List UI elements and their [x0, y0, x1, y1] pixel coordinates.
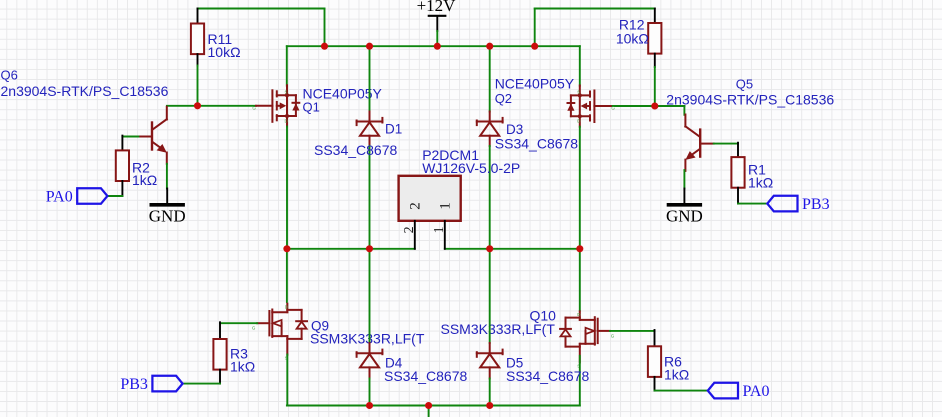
wire R11 bottom to node — [197, 66, 199, 106]
label D1 value — [314, 142, 398, 158]
label D5 refdes — [506, 356, 523, 371]
junction right output / D3-D5 — [486, 245, 493, 252]
svg-text:2n3904S-RTK/PS_C18536: 2n3904S-RTK/PS_C18536 — [1, 83, 169, 99]
wire bus to D1 cathode — [369, 46, 371, 111]
junction +12V bus / D1 — [366, 43, 373, 50]
label D1 refdes — [385, 122, 402, 137]
label Q1 refdes — [303, 99, 320, 114]
label R6 value — [664, 367, 689, 383]
junction node right gate — [651, 102, 658, 109]
svg-text:SSM3K333R,LF(T: SSM3K333R,LF(T — [310, 331, 425, 347]
net flag PB3 (right input) — [767, 196, 829, 213]
resistor R2 top pin — [121, 136, 123, 151]
label R3 value — [230, 359, 255, 375]
diode D4 — [357, 350, 383, 368]
svg-text:G: G — [611, 333, 615, 338]
label Q5 value — [666, 92, 834, 108]
wire left output rail — [287, 248, 415, 250]
wire Q9 source to GND rail — [286, 355, 288, 406]
wire R12-top horizontal — [535, 8, 655, 10]
svg-text:1: 1 — [432, 226, 447, 233]
wire +12V stem — [436, 31, 438, 46]
svg-text:1kΩ: 1kΩ — [230, 359, 255, 375]
label Q6 value — [1, 83, 169, 99]
wire Q5 collector stub — [683, 106, 685, 115]
svg-text:PA0: PA0 — [743, 383, 770, 400]
label R12 refdes — [619, 17, 645, 33]
wire R12-top drop to bus — [534, 9, 536, 47]
svg-text:2: 2 — [408, 202, 424, 210]
wire D5 anode to GND rail — [489, 379, 491, 406]
junction bottom rail / D4 — [366, 402, 373, 409]
diode D5 — [477, 350, 503, 368]
junction +12V bus / R12 loop — [531, 43, 538, 50]
wire Q1 source down to left output — [286, 127, 288, 249]
resistor R3 top pin — [219, 322, 221, 339]
svg-text:PB3: PB3 — [802, 196, 830, 213]
resistor R3 — [213, 339, 226, 370]
resistor R12 — [648, 23, 661, 54]
diode D1 anode pin — [369, 136, 371, 146]
junction bottom rail stub — [425, 402, 432, 409]
wire PB3 flag to R3 — [183, 383, 220, 385]
wire Q10 gate to R6 — [610, 330, 655, 332]
resistor R1 — [731, 157, 744, 188]
svg-text:S: S — [577, 90, 580, 95]
label Q9 refdes — [311, 319, 329, 334]
wire bus to D3 cathode — [489, 46, 491, 111]
junction right output B — [576, 245, 583, 252]
label R3 refdes — [230, 346, 248, 362]
resistor R6 — [648, 346, 661, 377]
mosfet Q9 — [252, 304, 307, 361]
svg-text:GND: GND — [149, 207, 186, 226]
mosfet Q1 — [252, 85, 299, 126]
wire D3 anode to right output — [489, 146, 491, 249]
wire R3 to Q9 gate — [220, 322, 257, 324]
transistor Q6 — [139, 107, 167, 164]
label R2 value — [132, 172, 157, 188]
junction left output A — [283, 245, 290, 252]
svg-text:SS34_C8678: SS34_C8678 — [506, 368, 590, 384]
svg-text:SS34_C8678: SS34_C8678 — [495, 136, 579, 152]
label Q1 value — [303, 85, 383, 101]
resistor R2 — [116, 150, 129, 181]
label R12 value — [616, 31, 649, 47]
diode D3 cathode pin — [489, 112, 491, 122]
ground (left) — [149, 189, 186, 226]
label Q9 value — [310, 331, 425, 347]
net flag PA0 (left input) — [46, 188, 108, 205]
resistor R11 — [191, 24, 204, 55]
junction +12V bus / D3 — [486, 43, 493, 50]
pin name 2 — [408, 202, 424, 210]
svg-text:PA0: PA0 — [46, 189, 73, 206]
wire Q5 base to R1 top — [714, 143, 738, 145]
wire Q5 emitter to GND — [683, 170, 685, 188]
resistor R12 bottom pin — [654, 54, 656, 67]
wire node to Q5 collector — [655, 105, 685, 107]
svg-text:GND: GND — [666, 207, 703, 226]
connector P2 pin 2 — [414, 221, 416, 249]
svg-text:SS34_C8678: SS34_C8678 — [314, 142, 398, 158]
diode D3 — [477, 118, 503, 136]
pin number 2 — [402, 226, 417, 233]
ground (right) — [666, 189, 703, 226]
label Q2 value — [495, 76, 575, 92]
svg-text:NCE40P05Y: NCE40P05Y — [495, 76, 575, 92]
pin name 1 — [438, 202, 454, 210]
svg-text:1kΩ: 1kΩ — [132, 172, 157, 188]
net flag PA0 (right low input) — [708, 383, 770, 400]
label R11 value — [208, 44, 241, 60]
svg-text:G: G — [252, 326, 256, 331]
svg-text:SS34_C8678: SS34_C8678 — [384, 368, 468, 384]
svg-text:Q2: Q2 — [495, 91, 512, 106]
svg-text:SSM3K333R,LF(T: SSM3K333R,LF(T — [441, 321, 556, 337]
resistor R11 bottom pin — [197, 54, 199, 65]
wire right output to Q10 drain — [579, 249, 581, 311]
label D4 refdes — [385, 356, 403, 371]
wire bottom rail stub down — [428, 406, 430, 417]
net flag PB3 (left low input) — [120, 376, 182, 393]
wire R6 to PA0 flag — [655, 390, 708, 392]
svg-text:S: S — [285, 89, 288, 94]
wire R1 to PB3 flag — [738, 203, 767, 205]
wire right output rail — [445, 248, 580, 250]
wire right gate rail — [610, 105, 655, 107]
label Q10 value — [441, 321, 556, 337]
wire +12V bus horizontal — [287, 45, 580, 47]
mosfet Q10 — [560, 311, 615, 368]
wire D1 anode to left output — [369, 146, 371, 249]
label Q6 refdes — [1, 68, 18, 83]
wire Q10 source to GND rail — [579, 356, 581, 406]
wire Q2 source down to right output — [579, 127, 581, 249]
wire R2 top to Q6 base — [122, 136, 138, 138]
svg-text:G: G — [611, 106, 615, 111]
label Q10 refdes — [530, 308, 557, 324]
label R11 refdes — [208, 31, 233, 47]
wire bus to Q1 drain — [286, 46, 288, 85]
wire D4 anode to GND rail — [369, 379, 371, 406]
wire Q6 emitter to GND — [166, 164, 168, 189]
resistor R3 bottom pin — [219, 370, 221, 384]
wire PA0 flag to R2 — [107, 195, 122, 197]
junction +12V bus / +12V flag — [434, 43, 441, 50]
label Q2 refdes — [495, 91, 512, 106]
label R1 value — [748, 174, 773, 190]
resistor R1 top pin — [737, 143, 739, 157]
junction bottom rail / D5 — [486, 402, 493, 409]
wire R12 bottom to node — [654, 67, 656, 106]
label P2 refdes — [422, 147, 479, 163]
label D3 value — [495, 136, 579, 152]
wire left output to D4 cathode — [369, 249, 371, 343]
junction left output / D1-D4 — [366, 245, 373, 252]
connector P2 pin 1 — [444, 221, 446, 249]
svg-text:Q5: Q5 — [736, 77, 753, 92]
svg-text:D1: D1 — [385, 122, 402, 137]
diode D5 cathode pin — [489, 343, 491, 353]
mosfet Q2 — [567, 86, 615, 127]
svg-text:Q1: Q1 — [303, 99, 320, 114]
resistor R11 top pin — [197, 9, 199, 24]
svg-text:G: G — [252, 106, 256, 111]
junction +12V bus / R11 loop — [321, 43, 328, 50]
wire R11-top drop to +12V bus — [324, 9, 326, 47]
svg-text:+12V: +12V — [417, 0, 457, 15]
wire left output to Q9 drain — [286, 249, 288, 302]
label D5 value — [506, 368, 590, 384]
power flag +12V — [417, 0, 457, 31]
resistor R6 bottom pin — [654, 377, 656, 391]
diode D1 cathode pin — [369, 112, 371, 122]
resistor R2 bottom pin — [121, 181, 123, 196]
label P2 value — [422, 160, 520, 176]
connector P2 body — [399, 176, 461, 221]
label Q5 refdes — [736, 77, 753, 92]
resistor R1 bottom pin — [737, 188, 739, 204]
pin number 1 — [432, 226, 447, 233]
label R2 refdes — [132, 159, 150, 175]
label D4 value — [384, 368, 468, 384]
label D3 refdes — [506, 122, 523, 137]
wire left gate rail — [198, 105, 257, 107]
wire bus to Q2 drain — [579, 46, 581, 85]
svg-text:1: 1 — [438, 202, 454, 210]
wire node to Q6 collector — [167, 105, 198, 107]
diode D1 — [357, 118, 383, 136]
diode D4 cathode pin — [369, 343, 371, 353]
svg-text:1kΩ: 1kΩ — [664, 367, 689, 383]
svg-text:WJ126V-5.0-2P: WJ126V-5.0-2P — [422, 160, 520, 176]
label R1 refdes — [748, 162, 766, 178]
resistor R12 top pin — [654, 9, 656, 24]
junction node left gate — [194, 102, 201, 109]
svg-text:Q6: Q6 — [1, 68, 18, 83]
svg-text:2n3904S-RTK/PS_C18536: 2n3904S-RTK/PS_C18536 — [666, 92, 834, 108]
label R6 refdes — [664, 354, 682, 370]
wire R11-top horizontal — [198, 8, 325, 10]
svg-text:2: 2 — [402, 226, 417, 233]
svg-text:10kΩ: 10kΩ — [208, 44, 241, 60]
diode D4 anode pin — [369, 367, 371, 378]
wire right output to D5 cathode — [489, 249, 491, 343]
diode D5 anode pin — [489, 367, 491, 378]
svg-text:PB3: PB3 — [120, 376, 148, 393]
wire bottom rail — [287, 405, 580, 407]
resistor R6 top pin — [654, 330, 656, 346]
svg-text:10kΩ: 10kΩ — [616, 31, 649, 47]
svg-text:1kΩ: 1kΩ — [748, 174, 773, 190]
transistor Q5 — [685, 115, 713, 171]
diode D3 anode pin — [489, 136, 491, 146]
